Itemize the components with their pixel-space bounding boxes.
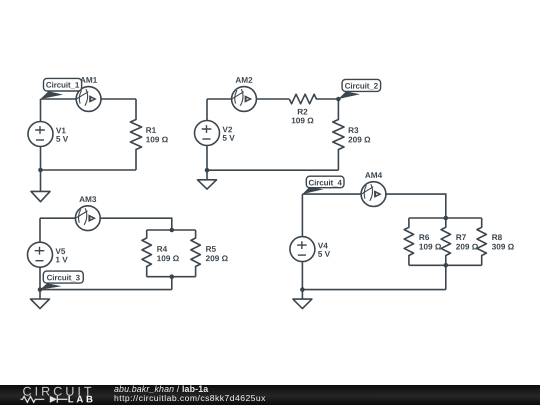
junction <box>300 287 305 292</box>
voltage source V2 value label "V2 5 V" <box>222 127 234 141</box>
resistor R1 <box>130 99 141 170</box>
junction <box>444 263 449 268</box>
circuit 1 <box>28 77 168 202</box>
wire left rail V4 <box>301 194 303 290</box>
junction <box>205 168 210 173</box>
voltage source V5 <box>28 242 53 267</box>
wire bottom <box>40 289 172 291</box>
ground <box>31 290 50 309</box>
CircuitLab logo <box>0 385 100 405</box>
wire left rail V2 <box>206 99 208 170</box>
resistor R5 <box>191 230 200 277</box>
circuit 4 <box>290 172 514 308</box>
wire stub bank to bottom <box>171 277 173 290</box>
ammeter AM3 label <box>79 196 96 202</box>
ammeter AM4 <box>361 182 386 207</box>
logo resistor-diode squiggle <box>21 396 58 403</box>
resistor R4 <box>142 230 151 277</box>
resistor R3 value label "R3 209 Ω" <box>348 127 370 142</box>
wire stub bank to bottom <box>445 265 447 289</box>
junction <box>444 216 449 221</box>
wire bottom <box>302 289 445 291</box>
footer url text <box>114 394 266 403</box>
voltage source V4 <box>290 237 315 262</box>
junction <box>38 168 43 173</box>
footer title text <box>114 385 208 394</box>
node Circuit_1 flag label <box>41 78 82 99</box>
voltage source V1 <box>28 122 53 147</box>
voltage source V4 value label "V4 5 V" <box>318 243 330 257</box>
voltage source V5 value label "V5 1 V" <box>55 248 67 262</box>
wire bottom <box>207 169 338 171</box>
resistor R2 <box>289 94 316 104</box>
ammeter AM3 <box>75 206 100 231</box>
resistor R8 <box>477 218 486 265</box>
junction <box>170 274 175 279</box>
wire bottom <box>41 169 137 171</box>
resistor R6 value label "R6 109 Ω" <box>419 234 441 249</box>
resistor R5 value label "R5 209 Ω" <box>206 246 228 261</box>
wire left rail V1 <box>40 99 42 170</box>
wire bus bottom (R6-R7-R8) <box>409 264 482 266</box>
footer bar <box>0 385 540 405</box>
wire top right (R2 to Circuit_2 node) <box>316 98 339 100</box>
ground <box>31 170 50 202</box>
ammeter AM2 label <box>236 77 253 83</box>
node Circuit_3 flag label <box>40 271 83 290</box>
resistor R7 <box>441 218 450 265</box>
resistor R3 <box>333 99 344 170</box>
resistor R2 value label "R2 109 Ω" <box>292 109 314 124</box>
wire left rail V5 <box>39 218 41 289</box>
wire top (Circuit_1 node to R1) <box>41 98 137 100</box>
circuit 2 <box>195 77 381 189</box>
junction <box>336 97 341 102</box>
wire bus top (R4-R5) <box>147 229 196 231</box>
resistor R8 value label "R8 309 Ω" <box>492 234 514 249</box>
resistor R4 value label "R4 109 Ω" <box>157 246 179 261</box>
node Circuit_2 flag label <box>338 79 380 99</box>
ground <box>293 290 312 309</box>
wire top left (to R2) <box>207 98 289 100</box>
junction <box>170 228 175 233</box>
junction <box>38 287 43 292</box>
wire bus top (R6-R7-R8) <box>409 217 482 219</box>
resistor R6 <box>404 218 413 265</box>
ammeter AM1 <box>76 87 101 112</box>
wire top (Circuit_4 node to parallel bank) <box>302 194 445 218</box>
wire bus bottom (R4-R5) <box>147 276 196 278</box>
ammeter AM1 label <box>80 77 97 83</box>
wire top (AM3 to parallel bank) <box>40 218 172 230</box>
ammeter AM4 label <box>365 172 382 178</box>
ground <box>198 170 217 189</box>
voltage source V1 value label "V1 5 V" <box>56 128 68 142</box>
resistor R7 value label "R7 209 Ω" <box>456 234 478 249</box>
circuit 3 <box>28 196 228 308</box>
resistor R1 value label "R1 109 Ω" <box>146 127 168 142</box>
ammeter AM2 <box>232 87 257 112</box>
voltage source V2 <box>195 121 220 146</box>
node Circuit_4 flag label <box>302 176 344 194</box>
